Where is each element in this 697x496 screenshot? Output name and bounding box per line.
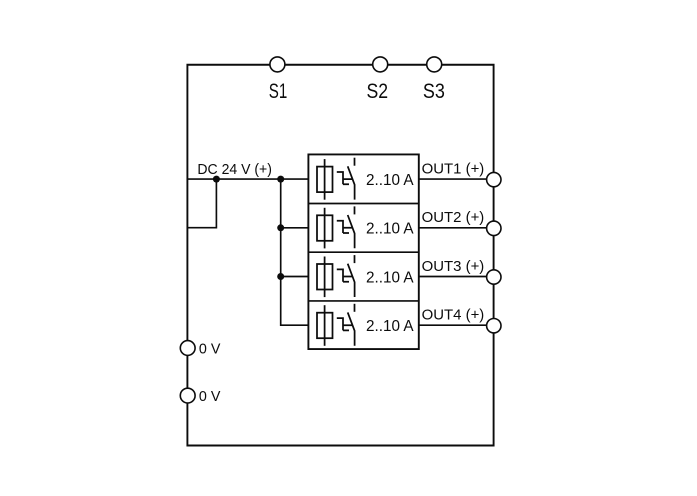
- svg-text:OUT1 (+): OUT1 (+): [422, 161, 485, 178]
- svg-text:2..10 A: 2..10 A: [366, 221, 414, 238]
- svg-text:2..10 A: 2..10 A: [366, 269, 414, 286]
- svg-text:S3: S3: [423, 80, 445, 103]
- svg-text:0 V: 0 V: [199, 388, 221, 405]
- svg-text:S2: S2: [367, 80, 389, 103]
- svg-text:S1: S1: [269, 80, 288, 103]
- svg-text:OUT2 (+): OUT2 (+): [422, 209, 485, 226]
- svg-text:2..10 A: 2..10 A: [366, 318, 414, 335]
- svg-text:OUT4 (+): OUT4 (+): [422, 307, 485, 324]
- svg-text:2..10 A: 2..10 A: [366, 172, 414, 189]
- svg-text:OUT3 (+): OUT3 (+): [422, 258, 485, 275]
- svg-text:0 V: 0 V: [199, 341, 221, 358]
- svg-text:DC 24 V (+): DC 24 V (+): [197, 161, 272, 178]
